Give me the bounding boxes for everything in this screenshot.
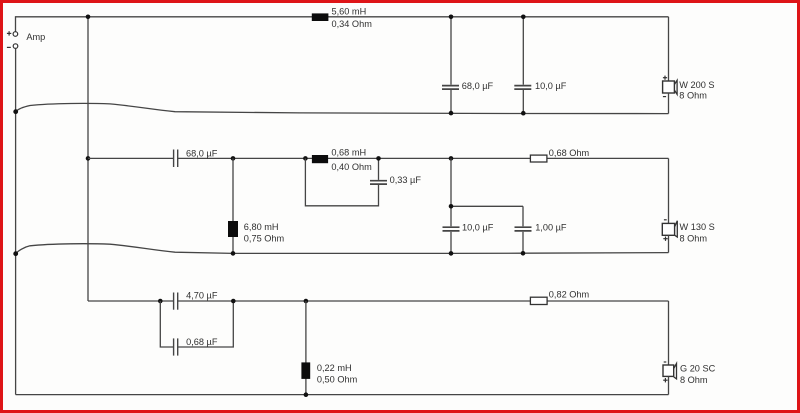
amp - terminal	[7, 44, 18, 49]
node branch2 return at C6	[521, 251, 526, 256]
speaker SP1 minus mark	[663, 96, 666, 98]
speaker SP3 G 20 SC symbol	[663, 364, 677, 379]
wire: right drop to speaker 3	[668, 301, 670, 365]
svg-text:4,70 µF: 4,70 µF	[186, 290, 218, 300]
amp + terminal	[7, 31, 18, 36]
speaker SP2 plus mark	[663, 237, 667, 241]
svg-text:0,82 Ohm: 0,82 Ohm	[549, 290, 590, 300]
value label C7	[186, 290, 218, 300]
capacitor C1 68,0 uF (shunt, branch 1)	[442, 17, 459, 113]
svg-text:8 Ohm: 8 Ohm	[680, 375, 708, 385]
wire: speaker 3 to bottom rail	[668, 376, 670, 394]
value label L3	[331, 148, 372, 172]
value label R1	[549, 148, 590, 158]
node at top rail / feeder junction	[86, 14, 91, 19]
inductor L1 5,60 mH (series, woofer-high... tweeter branch)	[312, 13, 329, 21]
value label C8	[186, 337, 218, 347]
speaker SP3 minus mark	[664, 361, 667, 363]
svg-text:0,40 Ohm: 0,40 Ohm	[331, 162, 372, 172]
svg-text:W 200 S: W 200 S	[679, 80, 714, 90]
value label L2	[244, 222, 285, 244]
node branch1 return at negative rail	[13, 109, 18, 114]
speaker SP1 W 200 S symbol	[663, 80, 678, 94]
value label C5	[462, 223, 494, 233]
wire: branch 2 main line	[88, 157, 669, 159]
inductor L4 0,22 mH (shunt, branch 3)	[301, 362, 310, 379]
svg-text:10,0 µF: 10,0 µF	[462, 223, 494, 233]
inductor L2 6,80 mH (shunt)	[228, 221, 238, 237]
speaker SP3 plus mark	[663, 378, 667, 382]
svg-text:0,33 µF: 0,33 µF	[390, 175, 422, 185]
wire: branch 2 bottom return (freehand)	[16, 244, 669, 254]
svg-text:G 20 SC: G 20 SC	[680, 363, 716, 373]
node branch2 return at C5	[449, 251, 454, 256]
value label L1	[332, 7, 373, 29]
inductor L3 0,68 mH (parallel trap)	[312, 155, 328, 163]
node top wire at C1	[449, 14, 454, 19]
svg-text:8 Ohm: 8 Ohm	[680, 233, 708, 243]
capacitor C5 10,0 uF (shunt, branch 2)	[443, 227, 460, 231]
svg-text:68,0 µF: 68,0 µF	[186, 148, 218, 158]
value label L4	[317, 363, 358, 385]
svg-text:5,60 mH: 5,60 mH	[332, 7, 367, 17]
node branch2 return at shunt inductor	[231, 251, 236, 256]
value label C4	[390, 175, 422, 185]
wire: shunt inductor branch	[232, 158, 234, 253]
wire: trap loop	[305, 158, 378, 205]
wire: right drop to speaker 2	[668, 158, 670, 223]
wire: shunt caps drop	[451, 158, 523, 253]
speaker SP2 minus mark	[664, 219, 667, 221]
wire: right drop to speaker 1	[668, 17, 670, 81]
label SP3	[680, 363, 716, 384]
wire: left negative rail	[15, 48, 17, 394]
wire: speaker 1 to bottom return	[668, 93, 670, 114]
svg-text:0,50 Ohm: 0,50 Ohm	[317, 375, 358, 385]
node branch3 at parallel caps right	[231, 299, 236, 304]
wire: top rail from amp + to tweeter branch	[16, 16, 669, 31]
svg-text:0,68 mH: 0,68 mH	[331, 148, 366, 158]
svg-text:Amp: Amp	[26, 32, 45, 42]
node branch2 at LC trap left	[303, 156, 308, 161]
wire: parallel cap loop	[160, 301, 233, 347]
svg-text:W 130 S: W 130 S	[680, 222, 715, 232]
label SP2	[680, 222, 715, 243]
node branch1 return at C2	[521, 111, 526, 116]
label SP1	[679, 80, 714, 101]
wire: shunt inductor drop branch 3	[305, 301, 307, 395]
resistor R1 0,68 Ohm (series, branch 2)	[530, 155, 547, 162]
value label R2	[549, 290, 590, 300]
capacitor C6 1,00 uF (shunt, branch 2)	[515, 227, 532, 231]
node branch3 at parallel caps left	[158, 299, 163, 304]
label Amp	[26, 32, 45, 42]
node shunt caps link	[449, 204, 454, 209]
value label C3	[186, 148, 218, 158]
svg-text:0,22 mH: 0,22 mH	[317, 363, 352, 373]
svg-text:10,0 µF: 10,0 µF	[535, 81, 567, 91]
wire: branch 3 main line	[88, 300, 669, 302]
speaker SP2 W 130 S symbol	[662, 221, 677, 237]
node top wire at C2	[521, 14, 526, 19]
wire: bottom return rail	[16, 394, 669, 396]
value label C1	[462, 81, 494, 91]
svg-text:1,00 µF: 1,00 µF	[535, 223, 567, 233]
value label C6	[535, 223, 567, 233]
node branch2 at shunt inductor	[231, 156, 236, 161]
wire: mid feeder rail x=88	[87, 17, 89, 301]
node feeder rail at branch 2	[86, 156, 91, 161]
capacitor C3 68,0 uF (series, branch 2)	[174, 150, 178, 168]
svg-text:8 Ohm: 8 Ohm	[679, 90, 707, 100]
capacitor C4 0,33 uF (trap)	[370, 181, 387, 184]
speaker SP1 W 200 S plus mark	[663, 76, 667, 80]
capacitor C7 4,70 uF (series, branch 3)	[174, 293, 178, 310]
capacitor C2 10,0 uF (shunt, branch 1)	[514, 17, 531, 113]
svg-text:68,0 µF: 68,0 µF	[462, 81, 494, 91]
node branch3 at shunt inductor	[304, 299, 309, 304]
svg-text:0,68 µF: 0,68 µF	[186, 337, 218, 347]
capacitor C8 0,68 uF (parallel, branch 3)	[174, 338, 178, 355]
node branch2 return at negative rail	[13, 251, 18, 256]
wire: speaker 2 to bottom return	[668, 235, 670, 252]
value label C2	[535, 81, 567, 91]
svg-text:6,80 mH: 6,80 mH	[244, 222, 279, 232]
resistor R2 0,82 Ohm (series, branch 3)	[530, 297, 547, 304]
node branch1 return at C1	[449, 111, 454, 116]
node branch2 at LC trap right	[376, 156, 381, 161]
node bottom rail at shunt inductor	[304, 392, 309, 397]
svg-text:0,34 Ohm: 0,34 Ohm	[332, 19, 373, 29]
svg-text:0,68 Ohm: 0,68 Ohm	[549, 148, 590, 158]
wire: branch 1 bottom return (freehand)	[16, 103, 669, 113]
node branch2 at shunt caps	[449, 156, 454, 161]
svg-text:0,75 Ohm: 0,75 Ohm	[244, 233, 285, 243]
